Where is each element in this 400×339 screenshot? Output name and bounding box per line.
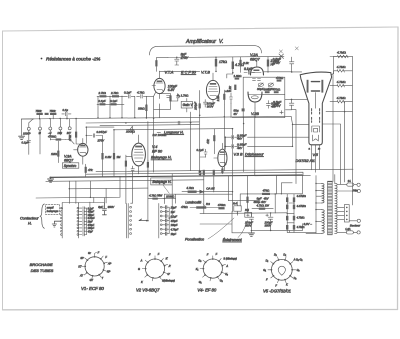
svg-text:750k: 750k — [36, 109, 43, 113]
resistor 470k heater row — [218, 203, 226, 209]
vertical feed dephaseur caps — [232, 129, 233, 176]
resistor 2.2k anode V2A — [267, 57, 280, 72]
label Contacteur H — [20, 217, 39, 226]
resistor 4.7k 1W — [252, 203, 273, 209]
fuse 6.3V — [337, 227, 357, 234]
svg-text:KP: KP — [107, 271, 111, 274]
resistor 47k luminosite — [181, 205, 224, 209]
svg-text:DES TUBES: DES TUBES — [31, 268, 54, 273]
long bus line B — [86, 172, 303, 175]
svg-text:A': A' — [168, 265, 172, 268]
svg-text:4.47MΩ: 4.47MΩ — [297, 204, 306, 208]
wire bottom bus to transformer — [289, 224, 302, 233]
svg-text:1.8kΩ: 1.8kΩ — [234, 74, 243, 78]
svg-text:V5 -DG7/32/01: V5 -DG7/32/01 — [263, 288, 291, 293]
svg-text:F: F — [207, 254, 209, 257]
svg-text:D₁: D₁ — [283, 253, 286, 256]
resistor 4.7M chain 3 — [330, 80, 352, 87]
voltage selector plate — [337, 205, 349, 222]
input attenuator resistor 750k a — [36, 109, 43, 115]
capacitor 100uF cathode V1A — [167, 85, 178, 98]
resistor 47k — [232, 57, 245, 74]
socket V2 pin labels — [138, 253, 175, 284]
CRT base pins — [309, 145, 322, 151]
svg-text:4.7kΩ: 4.7kΩ — [186, 186, 193, 190]
svg-text:Longueur H.: Longueur H. — [164, 130, 184, 134]
svg-text:47kΩ: 47kΩ — [181, 205, 188, 209]
tube V2A triode — [251, 61, 264, 75]
svg-text:1MΩ: 1MΩ — [51, 152, 57, 156]
selector arrow S3 — [139, 219, 147, 221]
labels bleeder 4.7M — [297, 194, 306, 229]
svg-text:V.T.B: V.T.B — [201, 70, 210, 74]
svg-text:100pF: 100pF — [88, 228, 95, 230]
svg-text:47kΩ: 47kΩ — [276, 76, 284, 80]
svg-text:47kΩ: 47kΩ — [263, 189, 270, 193]
svg-text:V.3 B: V.3 B — [234, 152, 243, 156]
label Balayage H switch — [151, 178, 172, 193]
svg-text:350V: 350V — [108, 205, 116, 209]
svg-text:275V: 275V — [97, 139, 106, 143]
svg-text:4.7MΩ: 4.7MΩ — [297, 215, 305, 219]
terminal secteur — [349, 219, 361, 227]
svg-text:K₂: K₂ — [225, 273, 228, 276]
cluster drops to bus — [98, 104, 135, 118]
wire V2B anode output — [262, 94, 307, 100]
input terminal DIR — [58, 116, 68, 135]
svg-text:4.7kΩ ½W: 4.7kΩ ½W — [149, 194, 163, 198]
svg-text:47kpF: 47kpF — [171, 220, 178, 223]
svg-text:470kΩ: 470kΩ — [218, 203, 226, 207]
bleeder crossbars — [287, 194, 317, 233]
label V2B — [251, 112, 259, 116]
svg-text:AP: AP — [107, 262, 112, 265]
resistor 17k anode V1B — [215, 57, 228, 72]
input attenuator resistor 750k b — [50, 109, 57, 115]
anode resistor V3B — [206, 129, 215, 154]
svg-text:1,6A: 1,6A — [345, 227, 351, 231]
resistor on drop b — [213, 170, 215, 175]
wire dephaseur to crt grid lines — [248, 116, 309, 147]
label 6.3V heater — [304, 222, 313, 226]
svg-text:1kpF: 1kpF — [88, 222, 94, 224]
capacitor 0.047uF V3A out — [86, 130, 107, 143]
svg-text:2.7kΩ: 2.7kΩ — [98, 91, 106, 95]
resistor grid V4 — [125, 155, 132, 174]
wire V1A anode link — [160, 57, 217, 72]
capacitor 100pF V1B — [203, 100, 215, 109]
svg-text:P.4: P.4 — [233, 201, 237, 205]
svg-text:1kpF: 1kpF — [171, 233, 177, 236]
CRT deflection plate right — [321, 80, 323, 93]
switch bank S3 selector — [126, 203, 131, 238]
label 8uF 4kV — [254, 197, 270, 204]
transformer core laminated — [328, 181, 333, 235]
resistor 4.7M chain 1 — [330, 51, 352, 75]
capacitor 50uF 6V cathode V2 — [234, 108, 245, 115]
resistor 2.2k left column — [228, 85, 236, 93]
svg-text:6,3V ~: 6,3V ~ — [304, 222, 313, 226]
svg-text:F: F — [105, 256, 107, 259]
timing capacitors of S4 — [162, 174, 172, 235]
resistor 470k horizontal — [48, 135, 66, 141]
capacitor 4.7nF row1 — [137, 91, 147, 99]
svg-text:47pF: 47pF — [88, 230, 94, 233]
resistor 1M vertical below — [51, 141, 59, 163]
svg-text:Contacteur: Contacteur — [20, 217, 39, 221]
resistor 4.7M chain 2 — [334, 65, 353, 74]
svg-text:F: F — [158, 253, 160, 256]
svg-text:G₁: G₁ — [263, 269, 266, 272]
resistor 1.8k left of box — [234, 74, 243, 80]
svg-text:4.7k: 4.7k — [199, 170, 202, 175]
svg-text:G₂: G₂ — [220, 279, 223, 282]
svg-text:Focalisation: Focalisation — [185, 238, 204, 242]
label brochage des tubes — [30, 262, 54, 273]
svg-text:1000P: 1000P — [23, 131, 31, 135]
junction plate line to CRT — [291, 71, 302, 73]
switch bank S1 — [61, 203, 63, 238]
capacitor 8uF 275V — [175, 52, 189, 65]
svg-text:GT: GT — [90, 279, 94, 282]
capacitor ladder of bank S2 — [79, 202, 90, 236]
label V3B Dephaseur — [234, 152, 265, 156]
tube V1A ECF80 triode — [152, 71, 165, 99]
label V5 DG7/32 — [296, 153, 319, 163]
junction dots attenuator — [39, 118, 68, 120]
wire grid V1A — [146, 92, 155, 118]
crossing x marks — [279, 47, 298, 53]
svg-text:4.7MΩ: 4.7MΩ — [337, 51, 347, 55]
wire hv box left — [276, 176, 292, 195]
title Amplificateur V. — [185, 39, 223, 45]
svg-text:4.7kpF: 4.7kpF — [171, 229, 179, 232]
resistor 47k half W lower — [273, 87, 281, 93]
label V3A 6BQ7 Synchro — [62, 154, 78, 168]
tube V1B pentode — [206, 73, 219, 105]
page scan edge left — [2, 31, 4, 310]
socket V5 DG7 — [268, 257, 296, 283]
svg-text:G': G' — [167, 273, 170, 276]
svg-text:AT: AT — [79, 274, 83, 277]
svg-text:2.2k: 2.2k — [216, 95, 220, 102]
capacitor 0.1uF below input — [22, 130, 31, 154]
svg-text:V.4: V.4 — [152, 145, 157, 149]
label V4 EF80 Balayage H — [151, 145, 172, 160]
svg-text:Balayage H.: Balayage H. — [152, 180, 171, 184]
resistor 2.2k anode extra — [239, 57, 249, 72]
note: resistances a couche — [41, 56, 101, 61]
terminal volt — [337, 189, 360, 192]
bus drop to ground input — [20, 119, 22, 136]
HT vertical wire right — [351, 57, 353, 206]
svg-text:K': K' — [166, 258, 169, 261]
CRT cathode heater — [313, 135, 319, 141]
tube V4 EF80 — [132, 135, 146, 174]
wire U down — [49, 130, 51, 140]
resistor 470k anode V3A — [68, 118, 83, 144]
vertical feeds power mid — [204, 117, 275, 214]
wire below V2B box — [232, 118, 243, 124]
svg-text:F: F — [149, 254, 151, 257]
CRT grid electrode dashes — [312, 109, 320, 123]
label Lumiere — [185, 200, 210, 208]
labels timing caps — [171, 207, 179, 236]
wire power bottom — [200, 211, 289, 232]
svg-text:K: K — [286, 283, 288, 286]
svg-text:G₃: G₃ — [198, 259, 201, 262]
screen resistor V1B — [216, 90, 225, 105]
label Eclairement — [223, 221, 248, 242]
wire longueur bus — [114, 129, 232, 130]
svg-text:P.3: P.3 — [206, 202, 210, 206]
bleeder chain right column — [293, 194, 295, 233]
CRT horizontal plate bars — [311, 82, 319, 91]
potentiometer P1 Gain V — [177, 93, 193, 112]
svg-text:G₁: G₁ — [199, 281, 202, 284]
svg-text:300V: 300V — [207, 104, 215, 108]
resistor cathode V3A — [85, 164, 94, 176]
resistor 4.7M chain 4 — [330, 96, 352, 103]
svg-text:G: G — [138, 268, 140, 271]
capacitor 100uF 350V a — [245, 213, 254, 233]
svg-text:V.2A: V.2A — [250, 53, 258, 57]
svg-text:T: T — [102, 277, 104, 280]
svg-text:33kΩ: 33kΩ — [138, 107, 145, 111]
feed line contacteur — [62, 198, 104, 204]
coupling cap on sweep bus — [178, 121, 180, 124]
trimmer capacitor 30pF — [257, 83, 264, 91]
svg-text:1µF: 1µF — [171, 211, 176, 214]
input terminal M — [39, 115, 42, 135]
svg-text:A: A — [225, 265, 228, 268]
svg-text:DG7/32 /01: DG7/32 /01 — [296, 159, 315, 163]
diode OA85 — [182, 186, 233, 193]
svg-text:100pF: 100pF — [194, 102, 198, 110]
junction dots dephaseur — [225, 137, 226, 150]
component cluster row2 caps — [99, 99, 118, 105]
svg-text:0.1µF: 0.1µF — [171, 215, 178, 218]
socket V1 ECF80 — [82, 252, 108, 279]
wire crt neck left column — [292, 110, 297, 176]
svg-text:E C F 80: E C F 80 — [181, 70, 197, 74]
svg-text:P.5: P.5 — [245, 208, 249, 212]
bleeder chain left column — [286, 194, 288, 233]
hv rectifier box — [276, 175, 310, 193]
capacitor 100uF 350V b — [265, 213, 274, 230]
svg-text:V2 V3-6BQ7: V2 V3-6BQ7 — [136, 287, 160, 292]
svg-text:Balayage H.: Balayage H. — [151, 156, 172, 160]
svg-text:Éclairement: Éclairement — [223, 237, 243, 242]
svg-text:Secteur: Secteur — [350, 223, 361, 227]
resistor 1k right of gain — [194, 90, 201, 115]
input terminal 1000P — [23, 119, 33, 135]
svg-text:S(blindage): S(blindage) — [162, 279, 175, 282]
transformer top connections — [323, 124, 341, 184]
svg-text:10kpF: 10kpF — [171, 224, 178, 227]
svg-text:275V: 275V — [272, 61, 281, 65]
capacitor below V4 — [131, 166, 134, 174]
svg-text:SP: SP — [80, 257, 84, 260]
label V1A ECF80 — [165, 70, 197, 74]
switch bank S2 — [77, 203, 79, 238]
svg-text:6BQ7: 6BQ7 — [64, 159, 74, 163]
svg-text:47k: 47k — [88, 168, 93, 172]
resistor above V1A — [155, 58, 168, 72]
svg-text:4.7kΩ: 4.7kΩ — [137, 91, 144, 95]
socket V5 pin labels — [263, 253, 302, 287]
svg-text:K: K — [141, 281, 143, 284]
svg-text:a: a — [309, 148, 311, 151]
socket V2 V3 6BQ7 — [142, 256, 168, 281]
svg-text:Luminosité: Luminosité — [185, 200, 201, 204]
svg-text:V4- EF 80: V4- EF 80 — [197, 287, 216, 292]
svg-text:F: F — [216, 253, 218, 256]
svg-text:0.1µF: 0.1µF — [197, 148, 204, 152]
resistor 33k vertical — [138, 104, 148, 118]
long bus line C dark — [50, 175, 302, 177]
svg-text:F: F — [98, 251, 100, 254]
resistor 47k hv feed — [262, 189, 270, 195]
svg-text:KT: KT — [78, 265, 82, 268]
wire M down — [39, 130, 41, 154]
label V1B — [201, 70, 210, 74]
svg-text:G₃: G₃ — [297, 269, 300, 272]
potentiometer P2 arrow — [126, 126, 134, 134]
grid dashes V2A V2B — [253, 79, 261, 81]
svg-text:A: A — [140, 259, 143, 262]
resistor on hv vertical — [246, 197, 248, 203]
transformer left taps — [306, 176, 322, 234]
svg-text:0.1µ: 0.1µ — [63, 108, 69, 112]
capacitor 0.1uF left V3B — [197, 148, 208, 157]
svg-text:0.1µF: 0.1µF — [124, 91, 131, 95]
svg-text:Synchro: Synchro — [64, 164, 77, 168]
label socket V1 — [81, 286, 104, 291]
tube V2B triode — [248, 92, 262, 108]
svg-text:47k: 47k — [206, 139, 210, 144]
ground power supply — [248, 233, 254, 236]
svg-text:Résistances à couche -2%: Résistances à couche -2% — [46, 56, 100, 61]
potentiometer P4 focalisation — [233, 201, 241, 215]
svg-text:V1- ECF 80: V1- ECF 80 — [81, 286, 104, 291]
svg-text:6.3V: 6.3V — [168, 88, 175, 92]
svg-text:D₂: D₂ — [274, 253, 277, 256]
wire V1B anode up — [216, 58, 233, 79]
svg-text:Amplificateur V.: Amplificateur V. — [185, 39, 223, 45]
input terminal INT — [67, 119, 72, 135]
wire S3 feed — [126, 122, 148, 221]
svg-text:470k: 470k — [68, 134, 72, 141]
svg-text:4.7MΩ: 4.7MΩ — [337, 65, 347, 69]
capacitor 0.1uF row1 — [124, 91, 135, 99]
svg-text:0.1µF: 0.1µF — [110, 99, 117, 103]
svg-text:V.T.A: V.T.A — [165, 70, 174, 74]
wire hv feed horizontal — [240, 193, 276, 206]
cathode resistor V3B — [221, 168, 223, 173]
HT rail wire — [168, 54, 284, 59]
svg-text:P₁ 1.7kΩ: P₁ 1.7kΩ — [177, 93, 189, 97]
svg-text:275V: 275V — [180, 56, 189, 60]
svg-text:2.2M: 2.2M — [104, 155, 112, 159]
resistor 68k half W — [264, 87, 272, 93]
junction network sweep right — [164, 194, 233, 203]
capacitor 0.5uF 275V lower plate — [272, 100, 294, 110]
socket V1 pin labels — [78, 251, 111, 282]
svg-text:A G₄-G₁: A G₄-G₁ — [293, 259, 303, 262]
tube V3B triode — [214, 143, 227, 174]
resistor 47k half W top — [276, 76, 284, 82]
brace contacteur — [40, 204, 44, 228]
bus line second — [21, 118, 34, 120]
svg-text:Gain V: Gain V — [183, 103, 194, 107]
svg-text:D₂: D₂ — [294, 277, 297, 280]
plus sign in box — [280, 111, 283, 114]
transformer primary winding — [322, 184, 325, 234]
wire crt right column — [332, 74, 334, 182]
screen grid network V4 — [147, 160, 149, 174]
svg-text:4.7kΩ 1W: 4.7kΩ 1W — [257, 203, 270, 207]
svg-text:4.7MΩ: 4.7MΩ — [337, 80, 347, 84]
input terminal U — [48, 115, 53, 135]
CRT axis wire — [315, 93, 317, 109]
capacitor 0.35uF 4kV upper — [225, 133, 246, 140]
svg-text:0.047µF: 0.047µF — [97, 130, 108, 134]
resistor synchro 1M — [113, 130, 121, 176]
label socket V4 — [197, 287, 216, 292]
resistor 4.7k sweep — [148, 194, 165, 200]
CRT deflection plate left — [307, 80, 309, 93]
svg-text:BROCHAGE: BROCHAGE — [30, 262, 53, 267]
socket V4 pin labels — [196, 253, 237, 284]
svg-text:47kΩ: 47kΩ — [273, 87, 281, 91]
page scan edge right — [397, 27, 400, 310]
svg-text:470pF: 470pF — [88, 224, 95, 227]
capacitor 0.5uF 275V upper plate — [272, 57, 294, 72]
svg-text:4.7MΩ: 4.7MΩ — [337, 96, 347, 100]
svg-text:47kpF: 47kpF — [88, 211, 95, 214]
input attenuator cap 0.1u — [62, 108, 71, 116]
svg-text:D₁: D₁ — [266, 259, 269, 262]
label socket V2V3 — [136, 287, 160, 292]
label Focalisation — [185, 218, 234, 242]
svg-text:470kΩ: 470kΩ — [48, 135, 56, 139]
long bus line A — [96, 169, 353, 171]
main bus input line — [21, 116, 291, 119]
ground on bus C — [48, 177, 54, 183]
amplifier top bracket line — [150, 46, 262, 55]
label P2 100k Longueur H — [126, 129, 184, 137]
svg-text:100kΩ: 100kΩ — [126, 129, 136, 133]
CRT focus electrode — [312, 126, 320, 132]
terminal pile — [353, 183, 360, 192]
page scan edge bottom — [3, 309, 398, 311]
svg-text:68kΩ: 68kΩ — [264, 87, 272, 91]
svg-text:4.7kpF: 4.7kpF — [88, 217, 96, 220]
capacitor 0.35uF 4kV lower — [225, 143, 246, 150]
svg-text:0.1µF: 0.1µF — [88, 208, 95, 210]
box around lower left — [36, 176, 204, 198]
svg-text:DIR: DIR — [58, 131, 63, 135]
svg-text:350V: 350V — [265, 224, 273, 228]
ground bank S1 — [52, 221, 60, 227]
wire V2A anode to plate line — [264, 71, 292, 72]
resistor on drop a — [199, 170, 205, 176]
svg-text:+18: +18 — [225, 89, 230, 93]
trimmer capacitor 4-20pF — [268, 83, 274, 91]
vertical drops amp right — [224, 103, 255, 171]
svg-text:S (blindage): S (blindage) — [223, 258, 237, 261]
